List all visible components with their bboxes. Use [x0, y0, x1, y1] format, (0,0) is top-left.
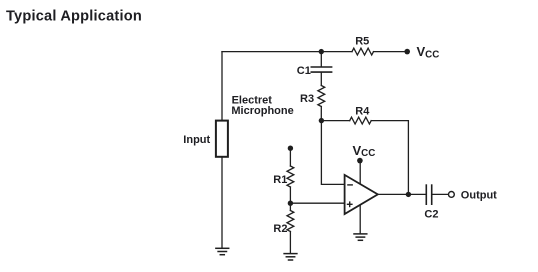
svg-text:Microphone: Microphone [231, 105, 293, 117]
resistor R5 [352, 48, 373, 55]
wire: C2 to output terminal [432, 193, 448, 195]
wire: junction to R2 [289, 203, 291, 210]
wire: R1 to junction [289, 187, 291, 203]
svg-text:R3: R3 [300, 93, 314, 105]
resistor R3 [318, 86, 325, 107]
node: R1/R2/non-inverting junction [288, 201, 293, 206]
svg-text:Typical Application: Typical Application [6, 8, 142, 24]
svg-text:C1: C1 [297, 65, 311, 77]
wire: junction down to C1 [320, 52, 322, 67]
wire: op-amp output [378, 193, 426, 195]
wire: junction to non-inverting input [290, 202, 344, 204]
op-amp U1 triangle [345, 175, 378, 214]
node: R1 top terminal dot [288, 146, 293, 151]
wire: node to R4 [321, 120, 349, 122]
svg-text:R5: R5 [355, 36, 369, 48]
svg-text:C2: C2 [424, 208, 438, 220]
ground: op-amp [354, 234, 367, 240]
svg-text:R1: R1 [273, 174, 287, 186]
node: Vcc terminal dot [404, 49, 410, 55]
wire: input box to ground [221, 157, 223, 248]
wire: top horizontal rail [222, 51, 352, 53]
svg-text:R2: R2 [273, 223, 287, 235]
wire: R2 to ground [289, 232, 291, 254]
wire: R4 to output node [371, 121, 408, 195]
resistor R2 [287, 211, 294, 232]
node: output open terminal [449, 192, 455, 198]
ground: input branch [216, 248, 229, 254]
node: output junction dot [406, 192, 411, 197]
svg-text:VCC: VCC [353, 143, 376, 159]
node: junction of rail and C1 branch [319, 49, 324, 54]
resistor R4 [350, 117, 371, 124]
wire: node down and right to inverting input [321, 121, 344, 185]
wire: R5 to Vcc terminal [374, 51, 408, 53]
svg-text:R4: R4 [355, 106, 370, 118]
component: electret microphone body (Input box) [216, 121, 228, 157]
wire: R3 to node [320, 107, 322, 121]
wire: R1 top dot to R1 [289, 148, 291, 166]
node: R3/R4/inverting-input junction [319, 118, 324, 123]
ground: R2 branch [284, 254, 297, 260]
capacitor C2 [425, 185, 427, 204]
resistor R1 [287, 166, 294, 187]
svg-text:Output: Output [461, 190, 497, 202]
svg-text:VCC: VCC [417, 44, 440, 60]
wire: op-amp supply line from Vcc through amp to ground [359, 161, 361, 234]
op-amp non-inverting input symbol [348, 203, 352, 205]
capacitor C1 [311, 66, 331, 68]
svg-text:Input: Input [183, 134, 210, 146]
wire: C1 to R3 [320, 73, 322, 86]
op-amp inverting input symbol [348, 184, 352, 186]
wire: left vertical from rail to input box [221, 52, 223, 121]
node: op-amp Vcc dot [357, 158, 363, 164]
